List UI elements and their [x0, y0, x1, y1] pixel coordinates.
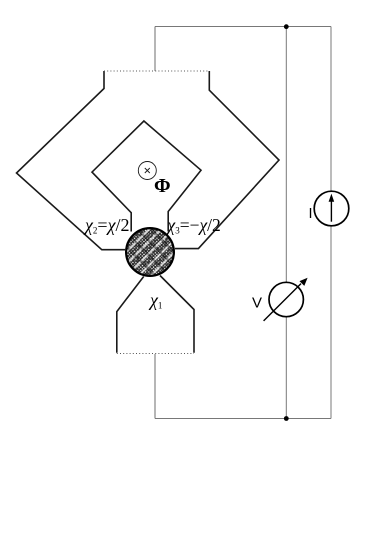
svg-text:V: V — [252, 295, 262, 312]
svg-text:χ2=χ/2: χ2=χ/2 — [83, 215, 130, 236]
svg-text:χ3=−χ/2: χ3=−χ/2 — [166, 215, 221, 236]
voltmeter V — [269, 282, 303, 316]
wire: chi1 arm right edge — [160, 276, 194, 353]
node: top junction dot — [284, 24, 289, 29]
wire: top stem into loop — [154, 27, 156, 72]
junction: hatched point contact — [126, 228, 174, 276]
flux symbol: circle with x — [138, 162, 156, 180]
svg-text:Φ: Φ — [154, 175, 171, 197]
svg-text:χ1: χ1 — [148, 290, 162, 311]
wire: middle vertical (voltmeter branch) — [285, 27, 287, 419]
wire: outer loop right half — [175, 71, 279, 249]
wire: chi1 arm left edge — [117, 277, 144, 353]
wire: dotted top opening — [104, 70, 209, 72]
wire: dotted bottom opening — [117, 353, 194, 355]
wire: top horizontal bus — [155, 26, 331, 28]
wire: bottom stem from chi1 arm — [154, 354, 156, 419]
current source I — [314, 191, 349, 226]
wire: outer loop left half — [17, 71, 126, 250]
svg-text:I: I — [309, 206, 313, 222]
wire: bottom horizontal bus — [155, 418, 331, 420]
node: bottom junction dot — [284, 416, 289, 421]
wire: inner diamond (flux hole) — [92, 121, 201, 232]
wire: right vertical (current source branch) — [330, 27, 332, 419]
